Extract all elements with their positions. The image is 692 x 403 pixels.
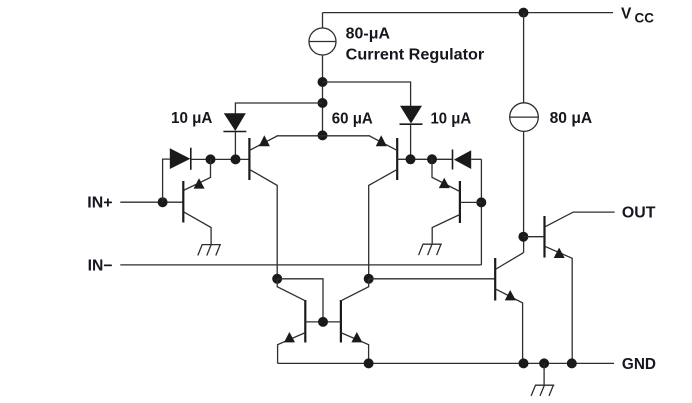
ground below Q4 — [419, 244, 442, 255]
wire node row left — [191, 158, 250, 160]
wire IN+ lead — [120, 201, 183, 203]
node dot left branch — [318, 98, 328, 108]
wire GND rail — [278, 362, 614, 364]
diode D3 right 10uA — [400, 106, 423, 160]
svg-text:Current Regulator: Current Regulator — [346, 47, 485, 64]
node dot ground stub — [539, 358, 549, 368]
transistor Q7 driver — [495, 253, 523, 364]
node dot tail 60uA — [318, 130, 328, 140]
wire to right 10uA diode — [323, 82, 411, 106]
node dot Q2 collector to mirror — [364, 274, 374, 284]
current source I2 80 uA — [509, 13, 539, 253]
svg-text:80 μA: 80 μA — [550, 110, 593, 127]
node dot Q4 emitter junction — [427, 154, 437, 164]
wire top VCC rail — [323, 12, 614, 14]
transistor Q1 left input — [249, 135, 322, 279]
transistor Q5 mirror left — [277, 279, 305, 364]
current source I1 80-uA current regulator — [309, 13, 337, 55]
svg-text:10 μA: 10 μA — [171, 110, 212, 127]
label VCC — [621, 6, 654, 26]
node dot mirror bases — [318, 317, 328, 327]
node dot right diode junction — [406, 154, 416, 164]
svg-text:IN−: IN− — [88, 257, 113, 274]
node dot Q4 base — [476, 197, 486, 207]
ground below Q3 — [198, 245, 221, 256]
node dot Q7 emitter — [519, 358, 529, 368]
transistor Q3 left follower — [183, 159, 211, 244]
diode D4 input clamp right — [453, 150, 482, 170]
wire IN- rail — [120, 264, 481, 266]
diode D2 left 10uA — [223, 113, 246, 159]
label 80-uA Current Regulator — [346, 26, 485, 64]
svg-text:CC: CC — [635, 10, 655, 25]
node dot Q8 base junction — [518, 232, 528, 242]
transistor Q2 right input — [323, 135, 453, 279]
transistor Q8 output — [523, 212, 614, 363]
wire mirror diode connection — [277, 279, 323, 322]
node dot left diode junction — [231, 154, 241, 164]
diode D1 input clamp left — [170, 148, 191, 170]
svg-text:10 μA: 10 μA — [431, 111, 472, 128]
node VCC branch dot — [519, 8, 529, 18]
node dot Q8 emitter — [567, 358, 577, 368]
transistor Q4 right follower — [432, 159, 481, 244]
svg-text:V: V — [621, 6, 632, 23]
wire mirror base link — [305, 321, 341, 323]
wire mirror output to Q7 — [369, 278, 496, 280]
svg-text:60 μA: 60 μA — [332, 111, 373, 128]
node dot Q3 emitter junction — [206, 154, 216, 164]
node dot right branch — [318, 77, 328, 87]
wire D4 to IN- riser — [480, 159, 482, 265]
node dot IN+ — [158, 197, 168, 207]
wire regulator output vertical — [322, 55, 324, 135]
svg-text:OUT: OUT — [622, 205, 656, 222]
svg-text:GND: GND — [622, 356, 656, 373]
svg-text:IN+: IN+ — [87, 195, 112, 212]
wire IN+ up to diode D1 — [163, 159, 171, 202]
transistor Q6 mirror right — [341, 279, 369, 364]
node dot Q6 emitter — [364, 358, 374, 368]
node dot Q1 collector to mirror — [272, 274, 282, 284]
ground below GND rail — [531, 363, 554, 396]
svg-text:80-μA: 80-μA — [346, 26, 390, 43]
wire to left 10uA diode — [235, 103, 322, 114]
